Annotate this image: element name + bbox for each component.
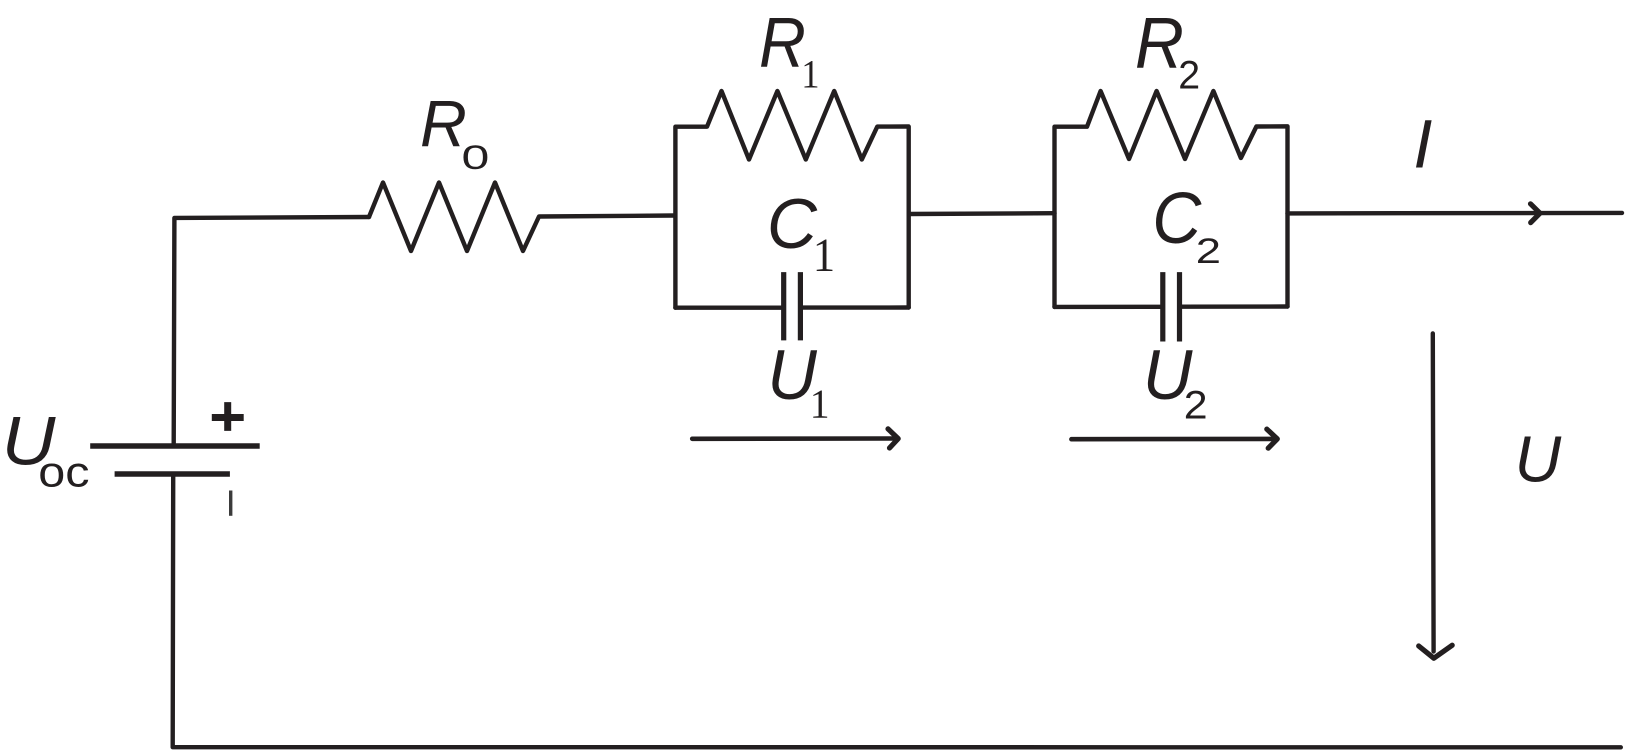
svg-text:oc: oc	[38, 449, 89, 497]
svg-text:R: R	[1135, 3, 1184, 84]
svg-text:1: 1	[801, 52, 819, 97]
svg-text:C: C	[767, 185, 818, 264]
svg-text:2: 2	[1178, 53, 1200, 98]
svg-text:U: U	[1515, 423, 1562, 496]
svg-text:1: 1	[813, 229, 835, 282]
svg-text:2: 2	[1196, 232, 1221, 271]
svg-text:0: 0	[462, 139, 490, 177]
svg-text:R: R	[759, 3, 806, 82]
svg-text:1: 1	[810, 382, 830, 427]
svg-text:2: 2	[1184, 383, 1208, 428]
svg-text:I: I	[1413, 106, 1432, 183]
svg-text:R: R	[420, 88, 467, 162]
svg-text:C: C	[1152, 179, 1202, 259]
